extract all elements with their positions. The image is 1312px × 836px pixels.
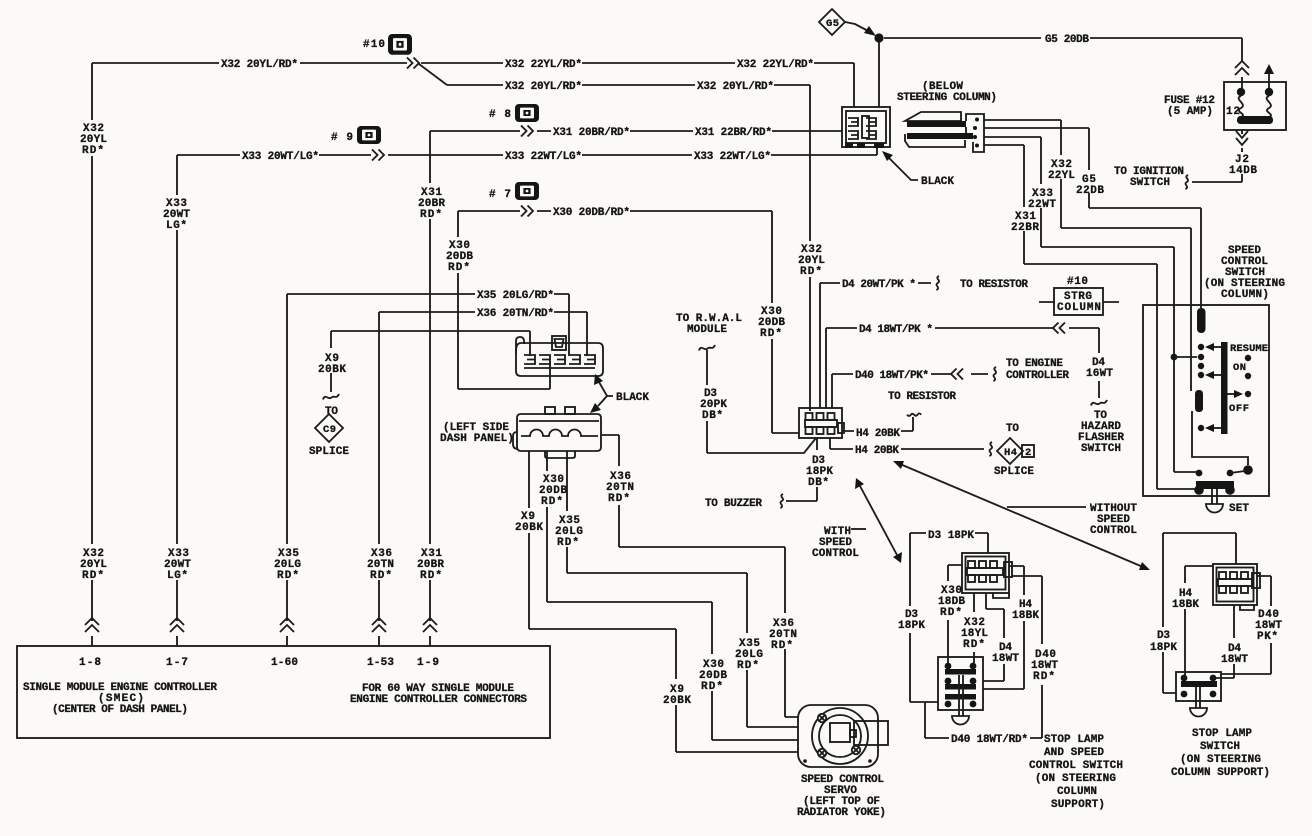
svg-text:D40 18WT/RD*: D40 18WT/RD* bbox=[951, 734, 1028, 746]
svg-text:CONTROLLER: CONTROLLER bbox=[1006, 370, 1069, 382]
wire X36 20TN/RD to dash connector bbox=[379, 312, 587, 356]
svg-text:16WT: 16WT bbox=[1086, 368, 1113, 380]
svg-text:18WT: 18WT bbox=[992, 653, 1019, 665]
wire X32 20YL/RD row to vertical x810 bbox=[447, 85, 810, 411]
label TO HAZARD FLASHER SWITCH bbox=[1091, 400, 1107, 406]
wire X32 vertical to SMEC pin 1-8 bbox=[91, 63, 93, 646]
wire X33 22WT from plug bbox=[984, 137, 1174, 472]
svg-text:SUPPORT): SUPPORT) bbox=[1051, 799, 1105, 811]
fuse #12 box bbox=[1224, 82, 1286, 130]
svg-text:BLACK: BLACK bbox=[921, 176, 954, 188]
svg-text:COLUMN: COLUMN bbox=[1057, 786, 1097, 798]
svg-text:C9: C9 bbox=[323, 424, 336, 436]
svg-text:D3: D3 bbox=[1157, 630, 1170, 642]
splice chevrons #8 bbox=[521, 126, 533, 137]
svg-text:TO BUZZER: TO BUZZER bbox=[705, 498, 762, 510]
svg-text:RD*: RD* bbox=[82, 570, 104, 582]
svg-text:(ON STEERING: (ON STEERING bbox=[1035, 773, 1116, 785]
svg-text:D40 18WT/PK*: D40 18WT/PK* bbox=[855, 370, 929, 382]
junction dot G5 bbox=[874, 33, 883, 42]
svg-text:RD*: RD* bbox=[82, 145, 104, 157]
wire X32 22YL from plug bbox=[984, 120, 1191, 391]
servo center square bbox=[830, 723, 850, 742]
svg-text:G5: G5 bbox=[826, 18, 839, 30]
svg-text:14DB: 14DB bbox=[1229, 165, 1257, 177]
svg-text:#10: #10 bbox=[1067, 276, 1088, 288]
wire X30 row from vertical x458 to vertical x772 bbox=[458, 211, 799, 433]
svg-text:ENGINE CONTROLLER CONNECTORS: ENGINE CONTROLLER CONNECTORS bbox=[350, 694, 527, 706]
switch pin dots column bbox=[1198, 344, 1204, 350]
svg-text:RD*: RD* bbox=[608, 493, 630, 505]
wire X31 row from vertical x430 to black connector bbox=[430, 130, 842, 132]
svg-text:SPLICE: SPLICE bbox=[309, 446, 349, 458]
connector icon #8 bbox=[515, 104, 539, 122]
svg-text:ON: ON bbox=[1233, 362, 1246, 374]
connector dash upper half (black) bbox=[516, 343, 603, 376]
wire G5 vertical into black connector bbox=[878, 42, 880, 107]
svg-text:(CENTER OF DASH PANEL): (CENTER OF DASH PANEL) bbox=[52, 704, 188, 716]
switch contact bar X32 bbox=[1195, 390, 1203, 412]
fuse element left leg bbox=[1237, 88, 1245, 96]
wire X30 upper branch to dash connector bbox=[458, 211, 550, 389]
svg-text:STOP LAMP: STOP LAMP bbox=[1044, 734, 1104, 746]
connector chevrons at SMEC pins bbox=[85, 618, 99, 632]
svg-text:STOP LAMP: STOP LAMP bbox=[1192, 728, 1252, 740]
wire X9 20BK to dash connector bbox=[331, 331, 530, 356]
svg-text:AND SPEED: AND SPEED bbox=[1044, 747, 1104, 759]
svg-text:BLACK: BLACK bbox=[616, 392, 649, 404]
svg-text:SWITCH: SWITCH bbox=[1130, 177, 1170, 189]
svg-text:1-7: 1-7 bbox=[166, 657, 188, 669]
set plunger bbox=[1212, 489, 1217, 504]
fuse element bar bbox=[1237, 116, 1273, 124]
wire H4 20BK upper stub bbox=[842, 417, 913, 431]
svg-text:X32 22YL/RD*: X32 22YL/RD* bbox=[737, 59, 814, 71]
svg-text:18PK: 18PK bbox=[1150, 642, 1177, 654]
svg-text:PK*: PK* bbox=[1257, 631, 1278, 643]
wire X31 22BR from plug bbox=[984, 145, 1157, 489]
wire D4 20WT/PK to resistor bbox=[820, 283, 931, 408]
svg-text:RD*: RD* bbox=[557, 537, 579, 549]
svg-text:SPLICE: SPLICE bbox=[994, 466, 1034, 478]
svg-text:TO RESISTOR: TO RESISTOR bbox=[888, 391, 956, 403]
svg-text:SWITCH: SWITCH bbox=[1081, 443, 1121, 455]
svg-text:H4 20BK: H4 20BK bbox=[856, 428, 900, 440]
right dots bbox=[1245, 355, 1251, 361]
wire D3 to buzzer bbox=[786, 438, 817, 501]
arrow to off contact bbox=[1227, 393, 1236, 395]
svg-text:RD*: RD* bbox=[1033, 671, 1055, 683]
arrow to on contact bbox=[1212, 374, 1221, 376]
svg-text:(ON STEERING: (ON STEERING bbox=[1180, 754, 1261, 766]
connector (distribution, at dash) bbox=[799, 408, 842, 438]
connector dash lower half bbox=[545, 407, 555, 414]
svg-text:RD*: RD* bbox=[771, 640, 793, 652]
svg-text:RD*: RD* bbox=[420, 570, 442, 582]
connector #10 STRG COLUMN box bbox=[1039, 301, 1119, 303]
wire H4 18BK bbox=[1185, 566, 1213, 675]
svg-text:D3 18PK: D3 18PK bbox=[928, 530, 974, 542]
wire X33 to contact bbox=[1174, 471, 1197, 473]
wire X30 18DB/RD bbox=[948, 565, 962, 663]
wire X35 20LG/RD to servo bbox=[567, 451, 798, 727]
svg-text:X32 22YL/RD*: X32 22YL/RD* bbox=[505, 59, 582, 71]
svg-text:RD*: RD* bbox=[701, 681, 723, 693]
junction dot on X33 wire bbox=[1171, 354, 1178, 361]
wire X9 20BK to servo bbox=[529, 451, 798, 752]
wire X31 inside switch bbox=[1157, 488, 1197, 490]
svg-text:DASH PANEL): DASH PANEL) bbox=[440, 433, 514, 445]
connector icon #9 bbox=[357, 126, 381, 144]
set switch bar bbox=[1196, 481, 1234, 489]
wire D4 18WT bbox=[983, 593, 1004, 681]
splice chevrons #7 bbox=[521, 206, 533, 217]
label WITHOUT SPEED CONTROL bbox=[1007, 506, 1086, 508]
wire X35 20LG/RD to dash connector bbox=[287, 294, 569, 356]
wire G5 22DB from plug bbox=[984, 128, 1201, 308]
svg-text:22DB: 22DB bbox=[1076, 185, 1104, 197]
svg-text:18WT: 18WT bbox=[1221, 654, 1248, 666]
svg-text:20BK: 20BK bbox=[663, 695, 691, 707]
svg-text:TO: TO bbox=[1006, 423, 1019, 435]
svg-text:RD*: RD* bbox=[420, 209, 442, 221]
svg-text:RD*: RD* bbox=[963, 639, 985, 651]
svg-text:RESUME: RESUME bbox=[1230, 343, 1268, 355]
node G5 source diamond bbox=[819, 9, 845, 35]
arrow to resume contact bbox=[1212, 346, 1221, 348]
svg-text:18BK: 18BK bbox=[1012, 610, 1039, 622]
svg-text:COLUMN: COLUMN bbox=[1057, 302, 1101, 314]
wire G5 20DB to fuse 12 bbox=[884, 38, 1242, 88]
svg-text:SET: SET bbox=[1229, 503, 1249, 515]
wire D3 20PK to R.W.A.L module bbox=[699, 345, 715, 351]
svg-text:RD*: RD* bbox=[448, 262, 470, 274]
wire H4 20BK to splice H4 bbox=[830, 438, 984, 449]
wire junction to pin bbox=[1174, 356, 1197, 358]
wire X33 vertical to SMEC pin 1-7 bbox=[176, 155, 178, 646]
svg-text:#10: #10 bbox=[363, 39, 385, 51]
svg-text:(5 AMP): (5 AMP) bbox=[1167, 106, 1213, 118]
svg-text:G5 20DB: G5 20DB bbox=[1045, 34, 1089, 46]
svg-text:D4 18WT/PK *: D4 18WT/PK * bbox=[859, 324, 933, 336]
stub X9 to splice C9 bbox=[330, 331, 332, 392]
svg-text:RD*: RD* bbox=[737, 660, 759, 672]
connector (stop lamp and speed control switch) bbox=[962, 553, 1009, 593]
switch contact pill G5 bbox=[1197, 308, 1206, 333]
svg-text:CONTROL: CONTROL bbox=[1090, 525, 1137, 537]
svg-text:RD*: RD* bbox=[370, 570, 392, 582]
svg-text:DB*: DB* bbox=[808, 477, 829, 489]
svg-text:OFF: OFF bbox=[1229, 403, 1249, 415]
connector plug below steering column bbox=[905, 112, 961, 121]
wire X36 vertical to SMEC pin 1-53 bbox=[378, 312, 380, 646]
servo connector tab bbox=[854, 721, 888, 745]
svg-text:# 9: # 9 bbox=[331, 132, 353, 144]
svg-text:TO ENGINE: TO ENGINE bbox=[1006, 358, 1063, 370]
wire X32 20YL/RD branch diagonal bbox=[419, 64, 447, 85]
svg-text:RD*: RD* bbox=[541, 496, 563, 508]
switch stop lamp and speed control bbox=[938, 657, 983, 710]
splice C9 diamond bbox=[315, 414, 343, 442]
svg-text:CONTROL: CONTROL bbox=[812, 548, 859, 560]
svg-text:X35 20LG/RD*: X35 20LG/RD* bbox=[477, 290, 554, 302]
wire X36 20TN/RD to servo bbox=[601, 435, 798, 717]
wire J2 14DB below fuse bbox=[1241, 130, 1243, 182]
svg-text:STEERING COLUMN): STEERING COLUMN) bbox=[897, 92, 997, 104]
SMEC box single module engine controller bbox=[17, 646, 550, 738]
svg-text:LG*: LG* bbox=[167, 570, 188, 582]
svg-text:RD*: RD* bbox=[940, 607, 962, 619]
svg-text:X32 20YL/RD*: X32 20YL/RD* bbox=[697, 81, 774, 93]
connector (black) at steering column bbox=[842, 107, 890, 147]
switch stop lamp bbox=[1176, 672, 1221, 701]
connector (stop lamp switch) bbox=[1213, 564, 1257, 605]
svg-text:X33 20WT/LG*: X33 20WT/LG* bbox=[242, 151, 319, 163]
svg-text:RD*: RD* bbox=[760, 328, 782, 340]
wire X32 18YL/RD bbox=[973, 593, 975, 663]
svg-text:X32 20YL/RD*: X32 20YL/RD* bbox=[221, 59, 298, 71]
svg-text:18PK: 18PK bbox=[898, 620, 925, 632]
svg-text:# 7: # 7 bbox=[489, 189, 511, 201]
speed control servo body bbox=[798, 705, 878, 767]
svg-text:H4 20BK: H4 20BK bbox=[855, 445, 899, 457]
svg-text:DB*: DB* bbox=[702, 410, 723, 422]
splice chevrons #10 bbox=[407, 58, 419, 69]
svg-text:# 8: # 8 bbox=[489, 109, 511, 121]
svg-text:18BK: 18BK bbox=[1172, 599, 1199, 611]
wire D40 18WT/PK bbox=[1221, 576, 1271, 674]
speed control switch box bbox=[1143, 305, 1269, 496]
wire D3 18PK bridge from connector to switch bbox=[1163, 533, 1236, 693]
svg-text:MODULE: MODULE bbox=[687, 324, 727, 336]
connector icon #10 bbox=[388, 34, 412, 55]
wire X31 vertical to SMEC pin 1-9 bbox=[429, 131, 431, 646]
connector chevrons above fuse bbox=[1235, 61, 1249, 75]
splice chevrons #9 bbox=[372, 150, 384, 161]
wire D40 18WT/RD loop bbox=[925, 576, 1042, 738]
svg-text:COLUMN): COLUMN) bbox=[1221, 289, 1269, 301]
svg-text:22YL: 22YL bbox=[1048, 170, 1075, 182]
wire D40 18WT/PK to engine controller bbox=[832, 374, 988, 408]
svg-text:LG*: LG* bbox=[166, 220, 187, 232]
svg-text:CONTROL SWITCH: CONTROL SWITCH bbox=[1029, 760, 1123, 772]
wire X33 row from vertical x177 to black connector underside bbox=[177, 147, 877, 155]
wire G5 leader with arrow to junction bbox=[845, 22, 872, 33]
wire D3 18PK loop to switch bbox=[910, 533, 988, 702]
servo screws bbox=[818, 714, 860, 757]
svg-text:H4: H4 bbox=[1004, 447, 1017, 459]
wire X32 inside switch bbox=[1192, 411, 1248, 465]
wire to ignition switch bbox=[1192, 181, 1242, 183]
svg-text:2: 2 bbox=[1025, 447, 1031, 459]
svg-text:SWITCH: SWITCH bbox=[1200, 741, 1240, 753]
wire X30 20DB/RD to servo bbox=[547, 451, 798, 740]
svg-text:COLUMN SUPPORT): COLUMN SUPPORT) bbox=[1171, 767, 1270, 779]
svg-text:RADIATOR YOKE): RADIATOR YOKE) bbox=[797, 807, 886, 819]
connector icon #7 bbox=[515, 182, 539, 200]
arrow without speed control bbox=[900, 464, 1143, 567]
svg-text:RD*: RD* bbox=[277, 570, 299, 582]
wire H4 18BK bbox=[983, 566, 1024, 689]
wire X35 vertical to SMEC pin 1-60 bbox=[286, 294, 288, 646]
svg-text:22BR: 22BR bbox=[1011, 222, 1039, 234]
svg-text:X33 22WT/LG*: X33 22WT/LG* bbox=[694, 151, 771, 163]
wire X32 row from SMEC 1-8 to steering column connector bbox=[92, 63, 854, 107]
svg-text:TO RESISTOR: TO RESISTOR bbox=[960, 279, 1028, 291]
svg-text:X30 20DB/RD*: X30 20DB/RD* bbox=[553, 207, 630, 219]
svg-text:1-60: 1-60 bbox=[271, 657, 298, 669]
switch slider bar RESUME bbox=[1221, 342, 1228, 434]
svg-text:X31 22BR/RD*: X31 22BR/RD* bbox=[695, 127, 772, 139]
svg-text:22WT: 22WT bbox=[1028, 199, 1056, 211]
svg-text:RD*: RD* bbox=[800, 266, 822, 278]
svg-text:X32 20YL/RD*: X32 20YL/RD* bbox=[505, 81, 582, 93]
svg-text:1-9: 1-9 bbox=[417, 657, 439, 669]
arrow with speed control bbox=[860, 486, 897, 555]
svg-text:20BK: 20BK bbox=[515, 522, 543, 534]
fuse element right leg with arrow up bbox=[1268, 71, 1270, 90]
svg-text:X33 22WT/LG*: X33 22WT/LG* bbox=[505, 151, 582, 163]
svg-text:1-53: 1-53 bbox=[367, 657, 394, 669]
wire D4 18WT bbox=[1213, 605, 1234, 678]
arrow to lower contact bbox=[1212, 427, 1221, 429]
svg-text:1-8: 1-8 bbox=[79, 657, 101, 669]
wire D4 18WT/PK to hazard flasher bbox=[826, 328, 1099, 408]
svg-text:12: 12 bbox=[1226, 106, 1240, 118]
svg-text:20BK: 20BK bbox=[318, 364, 346, 376]
svg-text:X36 20TN/RD*: X36 20TN/RD* bbox=[477, 308, 554, 320]
svg-text:D4 20WT/PK *: D4 20WT/PK * bbox=[842, 279, 916, 291]
svg-text:X31 20BR/RD*: X31 20BR/RD* bbox=[553, 127, 630, 139]
set contact pair bbox=[1227, 470, 1234, 477]
